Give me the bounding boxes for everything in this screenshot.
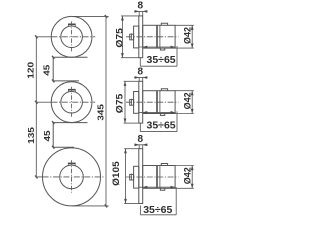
section top: 35-65 dim line	[139, 46, 176, 48]
section top: phi dimension line	[121, 16, 123, 58]
knob notch middle bar	[68, 89, 76, 91]
centerline horizontal top circle	[36, 36, 51, 38]
section middle: 35-65 text frame right	[176, 111, 178, 131]
section middle: 8-dim line	[134, 77, 147, 79]
section middle: 42-dim extension bottom	[175, 113, 194, 115]
section middle: 35-65 arrow left	[143, 111, 148, 114]
section top: 35-65 arrow left	[143, 46, 148, 49]
section middle: 8-dim extension right	[142, 78, 144, 82]
section middle: centerline	[126, 101, 179, 103]
section top: 35-65 text frame bottom	[140, 65, 177, 67]
section top: 35-65 text frame right	[176, 46, 178, 66]
escutcheon circle top (front view)	[51, 16, 92, 57]
tick at bottom circle center	[35, 175, 37, 178]
section top: body joint line thin	[159, 25, 161, 48]
dimension line 120-135 (left)	[35, 37, 37, 177]
section bottom: supply stub	[130, 174, 134, 180]
svg-text:Ø105: Ø105	[110, 161, 120, 186]
extension line bottom of plate	[72, 205, 109, 207]
tick 345 top	[105, 15, 107, 18]
section bottom: 8-dim line	[134, 144, 147, 146]
centerline horizontal middle circle	[36, 101, 51, 103]
section bottom: phi arrow bottom	[124, 199, 127, 204]
section bottom: 35-65 text frame bottom	[140, 214, 176, 216]
section middle: 42-dim arrow bottom	[191, 109, 194, 114]
svg-text:8: 8	[138, 67, 144, 78]
knob inner circle middle	[61, 91, 83, 113]
section bottom: 42-dim arrow bottom	[191, 184, 194, 189]
tick 45 bottom lower	[52, 146, 54, 149]
section bottom: 42-dim line	[191, 166, 193, 189]
svg-text:8: 8	[138, 134, 144, 145]
section bottom: 35-65 arrow right	[171, 186, 176, 189]
section bottom: body joint line thin	[159, 166, 161, 189]
section middle: stub centerline tick	[131, 99, 133, 106]
section top: stub centerline tick	[131, 33, 133, 40]
svg-text:135: 135	[27, 127, 36, 144]
centerline vertical top knob	[71, 21, 73, 51]
section top: 42-dim line	[191, 25, 193, 48]
section middle: 35-65 arrow right	[171, 111, 176, 114]
section bottom: bottom tab	[160, 188, 164, 190]
knob notch top bar	[68, 24, 76, 26]
section middle: 8-dim arrow left	[135, 76, 140, 79]
tick 45 top lower	[52, 79, 54, 82]
section bottom: 35-65 dim line	[139, 186, 176, 188]
svg-text:35÷65: 35÷65	[143, 204, 172, 216]
section bottom: phi dimension line	[125, 149, 127, 204]
svg-text:45: 45	[43, 65, 52, 76]
svg-text:Ø42: Ø42	[182, 167, 192, 184]
section middle: 42-dim extension top	[175, 90, 194, 92]
escutcheon circle middle (front view)	[51, 82, 92, 123]
section bottom: stub centerline tick	[131, 174, 133, 181]
section bottom: wall box behind flange	[134, 166, 139, 188]
section top: 42-dim arrow top	[191, 25, 194, 30]
section middle: phi arrow top	[124, 81, 127, 86]
section top: 35-65 text frame left	[139, 58, 141, 66]
section bottom: 35-65 text frame left	[139, 206, 141, 215]
knob notch middle sides	[68, 91, 75, 92]
section bottom: 8-dim extension right	[142, 145, 144, 149]
section bottom: 35-65 text frame right	[175, 187, 177, 215]
section top: wall box behind flange	[134, 26, 139, 48]
tick at middle circle center	[35, 101, 37, 104]
section top: body joint line thick	[156, 25, 158, 48]
section middle: top tab	[161, 89, 167, 91]
section top: bottom tab	[160, 48, 164, 50]
extension line top of plate	[72, 15, 109, 17]
section middle: extension line flange bottom	[124, 122, 139, 124]
section middle: wall box behind flange	[134, 92, 139, 114]
section top: 8-dim line	[134, 10, 147, 12]
svg-text:120: 120	[27, 62, 36, 79]
section bottom: body joint line thick	[156, 166, 158, 189]
wall step between top and middle circles	[53, 57, 87, 81]
section top: extension line flange bottom	[121, 57, 139, 59]
section top: top tab	[161, 23, 167, 25]
section top: centerline	[126, 36, 179, 38]
centerline vertical bottom knob	[71, 160, 73, 192]
section top: flange plate	[139, 16, 143, 58]
section middle: flange plate	[139, 81, 143, 123]
section top: 42-dim extension top	[175, 24, 194, 26]
section bottom: flange plate	[139, 149, 143, 204]
section middle: phi dimension line	[124, 81, 126, 123]
section bottom: 42-dim extension bottom	[175, 187, 194, 189]
section bottom: 42-dim extension top	[175, 165, 194, 167]
svg-text:8: 8	[138, 1, 144, 12]
section top: 42-dim extension bottom	[175, 47, 194, 49]
section top: 42-dim arrow bottom	[191, 44, 194, 49]
section top: body cylinder	[143, 25, 175, 48]
section bottom: 8-dim extension left	[138, 145, 140, 149]
section bottom: centerline	[126, 176, 179, 178]
section middle: 42-dim line	[191, 91, 193, 114]
svg-text:45: 45	[43, 130, 52, 141]
svg-text:Ø42: Ø42	[182, 92, 192, 109]
section top: 8-dim arrow left	[135, 10, 140, 13]
section top: 8-dim arrow right	[143, 10, 148, 13]
section bottom: extension line flange bottom	[124, 203, 139, 205]
svg-text:Ø75: Ø75	[114, 94, 124, 114]
section middle: bottom tab	[160, 114, 164, 116]
section bottom: 35-65 arrow left	[143, 186, 148, 189]
svg-text:35÷65: 35÷65	[147, 120, 176, 132]
tick 345 bottom	[105, 204, 107, 207]
section bottom: 8-dim arrow right	[143, 143, 148, 146]
section middle: extension line flange top	[124, 80, 139, 82]
section top: phi arrow top	[121, 16, 124, 21]
centerline vertical middle knob	[71, 87, 73, 117]
centerline horizontal bottom circle	[36, 176, 42, 178]
svg-text:345: 345	[96, 104, 105, 120]
section bottom: extension line flange top	[124, 148, 139, 150]
escutcheon circle bottom large (front view)	[43, 148, 101, 206]
knob inner circle top	[61, 26, 83, 48]
section middle: 35-65 text frame bottom	[140, 131, 177, 133]
section bottom: phi arrow top	[124, 149, 127, 154]
knob notch top sides	[68, 25, 75, 26]
section bottom: body cylinder	[143, 166, 175, 189]
section bottom: 42-dim arrow top	[191, 166, 194, 171]
section middle: body joint line thin	[159, 91, 161, 114]
section middle: 35-65 text frame left	[139, 123, 141, 131]
knob notch bottom bar	[68, 163, 76, 165]
section middle: body cylinder	[143, 91, 175, 114]
svg-text:Ø75: Ø75	[114, 28, 124, 48]
section middle: phi arrow bottom	[124, 119, 127, 124]
section middle: 35-65 dim line	[139, 111, 176, 113]
knob notch bottom sides	[68, 164, 75, 165]
svg-text:35÷65: 35÷65	[147, 54, 176, 66]
wall step between middle and bottom circles	[53, 123, 87, 148]
tick 45 top upper	[52, 56, 54, 59]
section bottom: top tab	[161, 164, 167, 166]
section middle: 8-dim extension left	[138, 78, 140, 82]
section top: supply stub	[130, 34, 134, 40]
section middle: body joint line thick	[156, 91, 158, 114]
tick at top circle center	[35, 35, 37, 38]
tick 45 bottom upper	[52, 121, 54, 124]
section top: 35-65 arrow right	[171, 46, 176, 49]
svg-text:Ø42: Ø42	[182, 27, 192, 44]
section middle: 8-dim arrow right	[143, 76, 148, 79]
section middle: supply stub	[130, 100, 134, 106]
section bottom: 8-dim arrow left	[135, 143, 140, 146]
dimension line 345 (right of front view)	[105, 16, 107, 206]
section top: phi arrow bottom	[121, 53, 124, 58]
section top: 8-dim extension left	[138, 11, 140, 16]
section top: 8-dim extension right	[142, 11, 144, 16]
knob inner circle bottom	[60, 165, 84, 189]
section middle: 42-dim arrow top	[191, 91, 194, 96]
section top: extension line flange top	[121, 15, 139, 17]
